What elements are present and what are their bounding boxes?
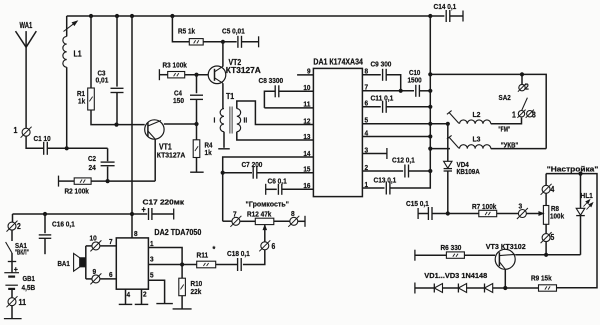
svg-text:4,5В: 4,5В <box>22 283 36 292</box>
svg-text:VT3 КТ3102: VT3 КТ3102 <box>486 242 526 251</box>
svg-text:1: 1 <box>150 239 154 248</box>
svg-text:C17 220мк: C17 220мк <box>143 197 185 206</box>
svg-text:R2 100k: R2 100k <box>65 187 90 196</box>
svg-text:C18 0,1: C18 0,1 <box>227 249 250 258</box>
svg-text:"ВКЛ": "ВКЛ" <box>15 248 29 257</box>
svg-text:2: 2 <box>17 222 21 231</box>
svg-text:11: 11 <box>19 298 27 307</box>
svg-text:3: 3 <box>532 111 536 120</box>
svg-text:КТ3127А: КТ3127А <box>226 66 261 75</box>
svg-text:C6 0,1: C6 0,1 <box>268 177 288 186</box>
svg-text:R12 47k: R12 47k <box>247 210 272 219</box>
svg-text:1500: 1500 <box>408 75 422 84</box>
svg-text:R9 15k: R9 15k <box>531 274 552 283</box>
svg-text:КВ109А: КВ109А <box>457 167 481 176</box>
svg-text:6: 6 <box>272 242 276 251</box>
svg-text:C14 0,1: C14 0,1 <box>434 2 457 11</box>
svg-text:C7 200: C7 200 <box>242 160 263 169</box>
svg-text:WA1: WA1 <box>20 21 33 30</box>
svg-text:C12 0,1: C12 0,1 <box>392 156 415 165</box>
svg-text:R3 100k: R3 100k <box>163 61 188 70</box>
svg-text:C11 0,1: C11 0,1 <box>371 94 394 103</box>
svg-text:+: + <box>142 205 146 215</box>
svg-text:GB1: GB1 <box>23 274 36 283</box>
svg-text:100k: 100k <box>550 211 565 220</box>
svg-text:2: 2 <box>143 290 147 299</box>
svg-text:24: 24 <box>89 163 97 172</box>
svg-text:2: 2 <box>525 83 529 92</box>
svg-text:5: 5 <box>551 233 555 242</box>
svg-text:C13 0,1: C13 0,1 <box>374 176 397 185</box>
svg-text:3: 3 <box>150 255 154 264</box>
svg-text:SA2: SA2 <box>499 93 511 102</box>
svg-text:9: 9 <box>93 267 97 276</box>
svg-text:VD1...VD3 1N4148: VD1...VD3 1N4148 <box>424 271 488 280</box>
svg-text:13: 13 <box>303 132 310 141</box>
svg-text:II: II <box>244 116 248 125</box>
svg-text:R7 100k: R7 100k <box>472 202 497 211</box>
svg-text:5: 5 <box>150 271 154 280</box>
svg-text:C2: C2 <box>88 154 96 163</box>
svg-text:C16 0,1: C16 0,1 <box>52 220 75 229</box>
svg-text:R6 330: R6 330 <box>441 243 462 252</box>
svg-text:8: 8 <box>134 229 138 238</box>
svg-text:R5 1k: R5 1k <box>178 27 196 36</box>
svg-text:150: 150 <box>173 96 184 105</box>
svg-text:10: 10 <box>90 234 97 243</box>
svg-text:12: 12 <box>303 116 310 125</box>
svg-text:L3: L3 <box>473 135 482 144</box>
svg-text:КТ3127А: КТ3127А <box>157 150 186 159</box>
svg-text:6: 6 <box>109 270 113 279</box>
svg-text:"УКВ": "УКВ" <box>501 140 519 149</box>
svg-text:DA1 К174ХА34: DA1 К174ХА34 <box>313 58 363 67</box>
svg-text:3: 3 <box>519 202 523 211</box>
svg-text:L1: L1 <box>74 50 83 59</box>
svg-text:I: I <box>214 116 216 125</box>
svg-text:L2: L2 <box>473 110 481 119</box>
svg-text:R11: R11 <box>197 251 209 260</box>
svg-text:7: 7 <box>233 210 237 219</box>
svg-text:1: 1 <box>14 126 18 135</box>
svg-text:"Громкость": "Громкость" <box>246 200 290 209</box>
svg-text:DA2 TDA7050: DA2 TDA7050 <box>154 228 202 237</box>
svg-text:C1 10: C1 10 <box>34 134 51 143</box>
svg-text:8: 8 <box>291 209 295 218</box>
svg-text:C8 3300: C8 3300 <box>259 76 284 85</box>
svg-text:0,01: 0,01 <box>96 76 109 85</box>
svg-text:C15 0,1: C15 0,1 <box>406 199 429 208</box>
svg-text:22k: 22k <box>191 287 202 296</box>
svg-text:"Настройка": "Настройка" <box>547 164 599 173</box>
svg-text:1: 1 <box>512 111 516 120</box>
svg-text:BA1: BA1 <box>58 259 71 268</box>
svg-text:1k: 1k <box>78 97 86 106</box>
svg-text:T1: T1 <box>226 92 235 101</box>
svg-text:C9 300: C9 300 <box>371 60 392 69</box>
svg-text:"FM": "FM" <box>498 125 510 134</box>
svg-text:1k: 1k <box>205 148 213 157</box>
svg-text:HL1: HL1 <box>581 191 594 200</box>
svg-text:7: 7 <box>109 237 113 246</box>
svg-text:4: 4 <box>551 185 555 194</box>
svg-text:+: + <box>14 265 18 274</box>
svg-text:C5 0,01: C5 0,01 <box>222 27 245 36</box>
